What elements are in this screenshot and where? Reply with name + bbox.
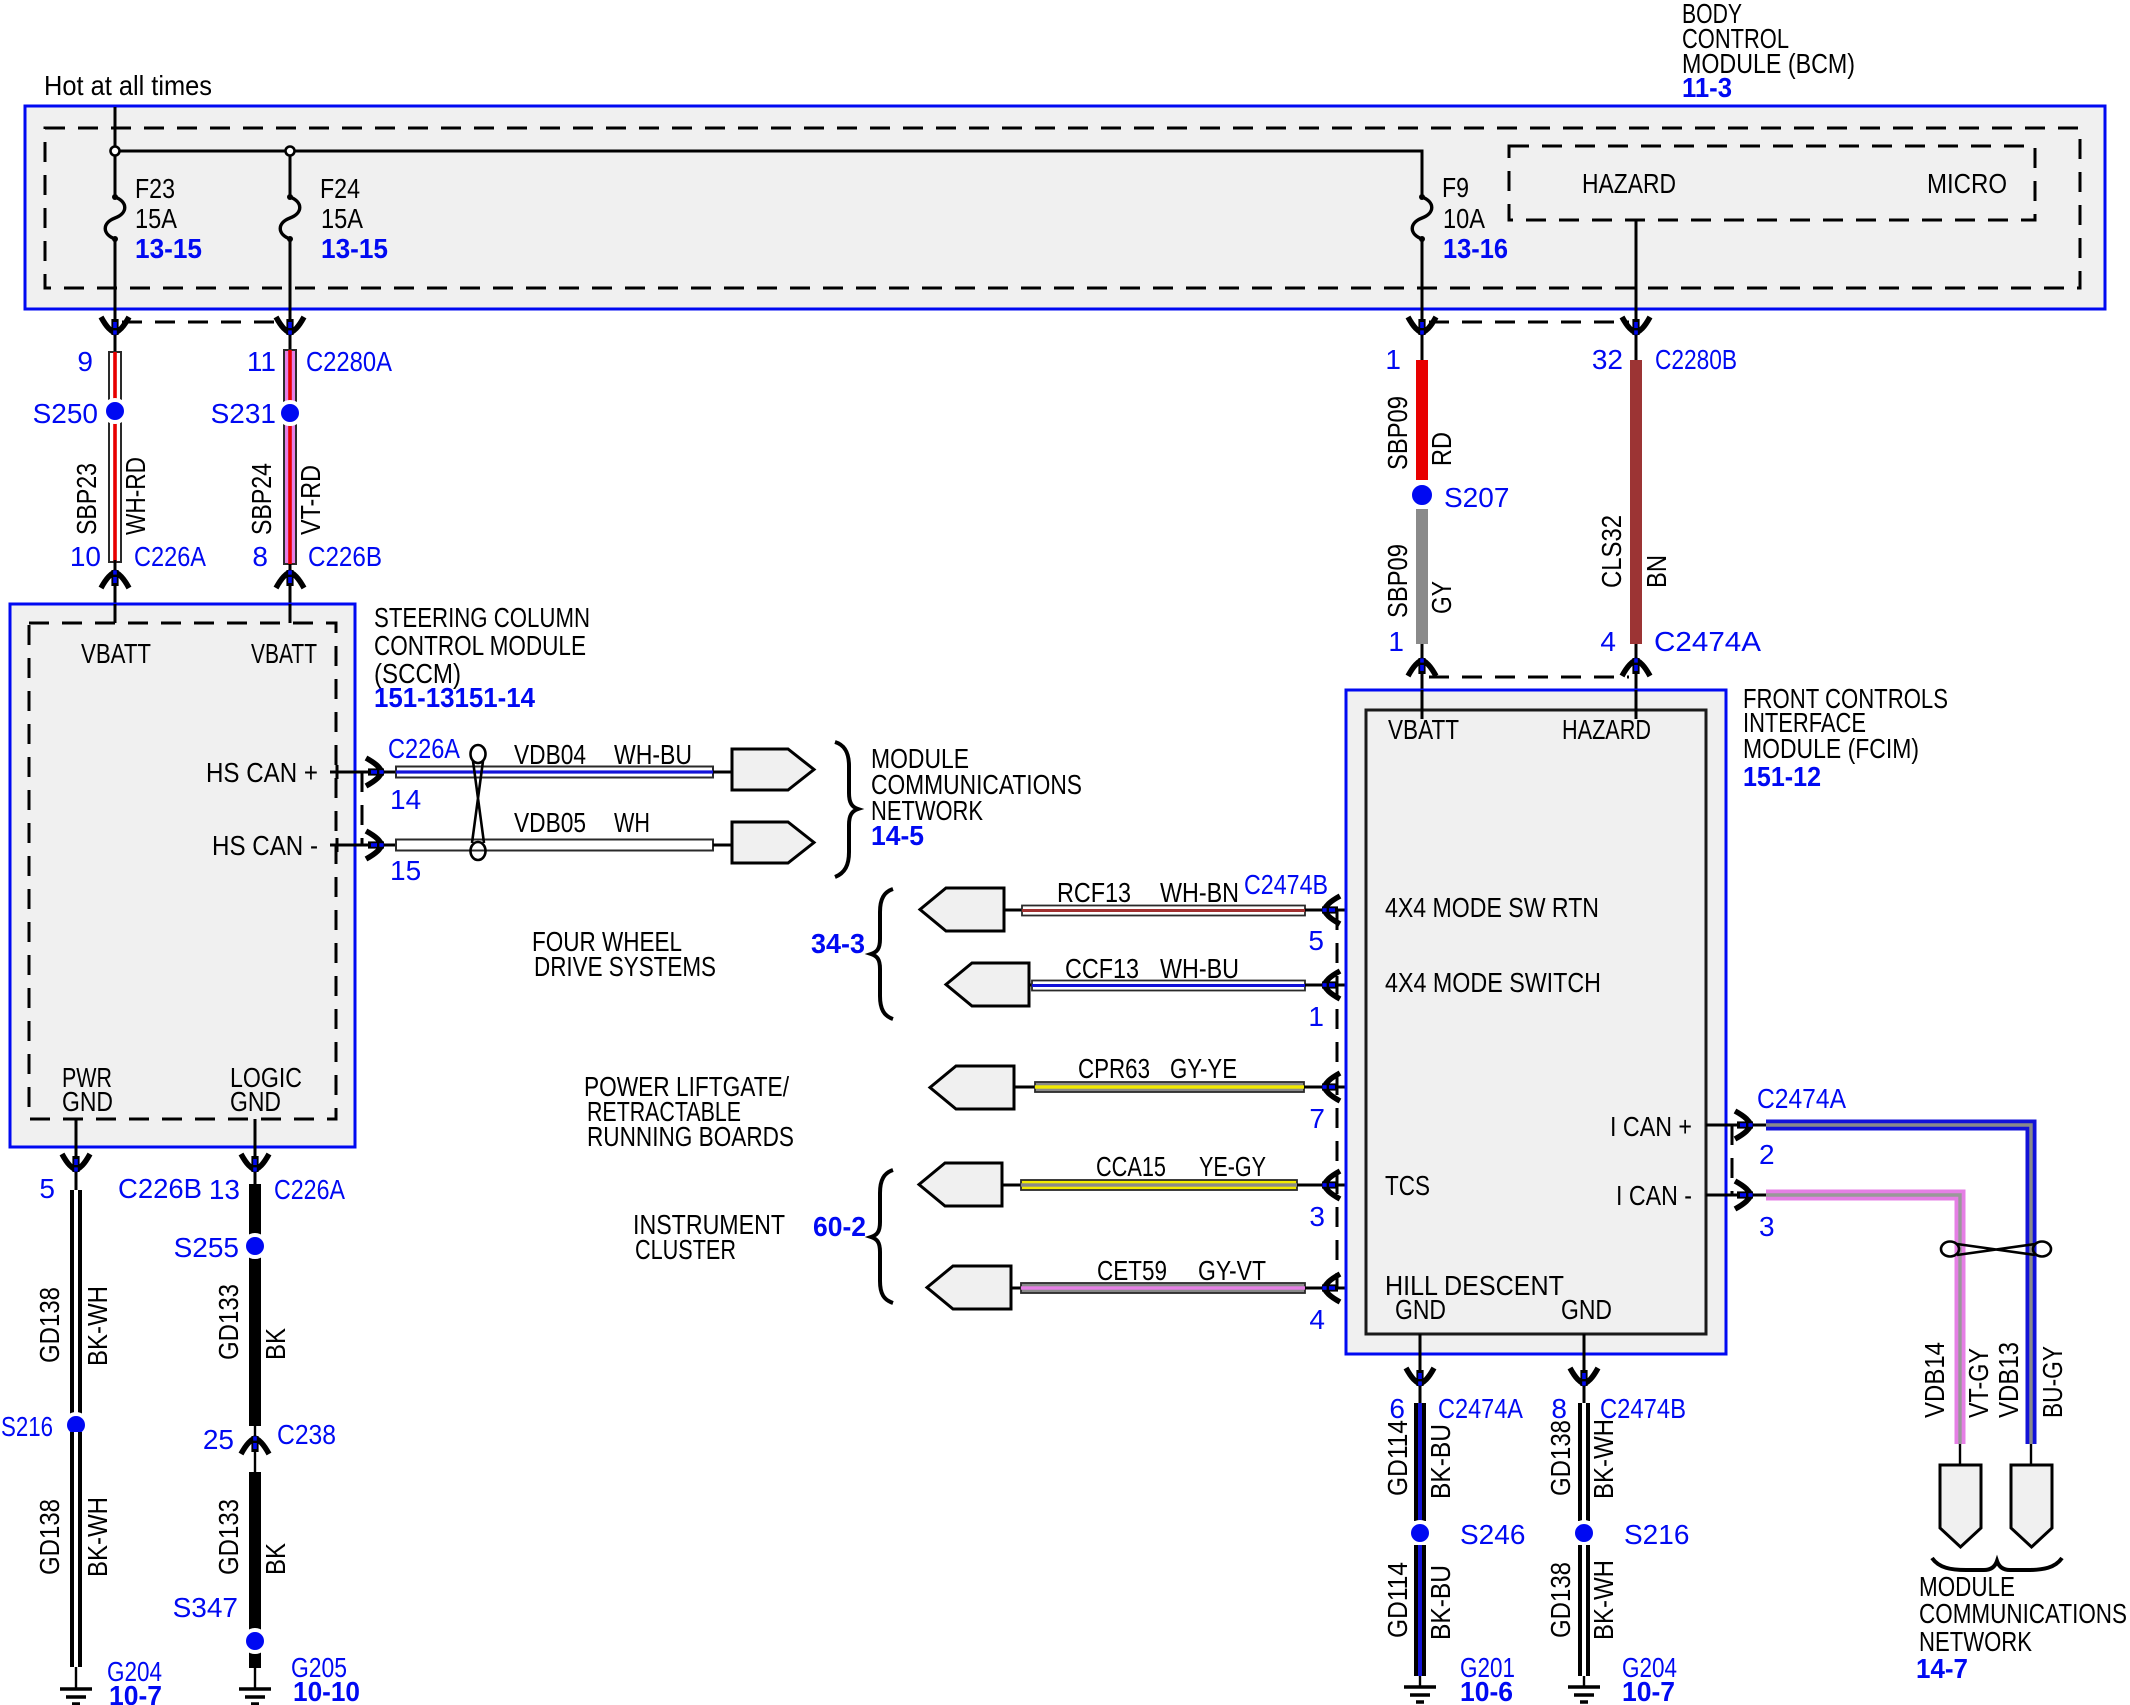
- wire SBP24 VT-RD band: [284, 335, 296, 564]
- svg-text:15: 15: [390, 855, 421, 886]
- svg-text:C226B: C226B: [118, 1173, 202, 1204]
- pin 5 / connector C226B label: [39, 1173, 202, 1204]
- connector arrow right I CAN + pin 2: [1735, 1111, 1753, 1139]
- label G205 10-10: [291, 1652, 360, 1705]
- svg-text:HS CAN -: HS CAN -: [212, 830, 318, 861]
- svg-text:1: 1: [1388, 626, 1404, 657]
- svg-text:COMMUNICATIONS: COMMUNICATIONS: [1919, 1598, 2127, 1629]
- connector pin arrow down at F9 out: [1408, 317, 1436, 335]
- ground G204 (left): [60, 1667, 92, 1704]
- svg-text:SBP09: SBP09: [1382, 544, 1413, 618]
- pin 8 / connector C226B label: [252, 541, 382, 572]
- connector C226A dashed link: [361, 772, 364, 845]
- svg-text:11-3: 11-3: [1682, 72, 1732, 103]
- svg-text:25: 25: [203, 1424, 234, 1455]
- wire F9 to connector: [1421, 239, 1424, 360]
- svg-text:CONTROL MODULE: CONTROL MODULE: [374, 630, 586, 661]
- label FOUR WHEEL DRIVE SYSTEMS: [532, 926, 716, 982]
- svg-text:HAZARD: HAZARD: [1562, 714, 1651, 745]
- wire into SCCM VBATT 1: [114, 560, 117, 604]
- svg-text:F9: F9: [1442, 172, 1469, 203]
- svg-text:BK: BK: [260, 1543, 291, 1575]
- svg-text:S231: S231: [211, 398, 276, 429]
- off-page pentagon CET59: [927, 1266, 1011, 1309]
- svg-text:VBATT: VBATT: [1388, 714, 1459, 745]
- connector arrow left pin 4: [1322, 1274, 1340, 1302]
- svg-text:SBP24: SBP24: [246, 463, 277, 535]
- svg-text:13-15: 13-15: [135, 233, 202, 264]
- BCM module label: BODY CONTROL MODULE (BCM) 11-3: [1682, 0, 1855, 103]
- svg-text:5: 5: [39, 1173, 55, 1204]
- svg-text:10-7: 10-7: [1622, 1676, 1675, 1705]
- brace four wheel drive systems: [871, 889, 893, 1019]
- wire GD138 BK-WH band (lower): [70, 1432, 82, 1667]
- svg-text:WH-BU: WH-BU: [614, 739, 692, 770]
- svg-text:S207: S207: [1444, 482, 1509, 513]
- label G204 10-7 (left): [107, 1656, 162, 1705]
- horizontal brace under pentagons: [1932, 1558, 2062, 1570]
- svg-text:TCS: TCS: [1385, 1170, 1430, 1201]
- svg-text:3: 3: [1309, 1201, 1325, 1232]
- svg-text:4X4 MODE SW RTN: 4X4 MODE SW RTN: [1385, 892, 1599, 923]
- svg-text:DRIVE SYSTEMS: DRIVE SYSTEMS: [534, 951, 716, 982]
- label POWER LIFTGATE / RETRACTABLE RUNNING BOARDS: [584, 1071, 794, 1152]
- pin 13 / connector C226A label: [209, 1174, 345, 1205]
- svg-text:14-5: 14-5: [871, 820, 924, 851]
- SCCM module box: [10, 604, 355, 1147]
- svg-text:HAZARD: HAZARD: [1582, 168, 1676, 199]
- svg-text:2: 2: [1759, 1139, 1775, 1170]
- wire SBP23 WH-RD band: [109, 335, 121, 562]
- svg-text:10-6: 10-6: [1460, 1676, 1513, 1705]
- svg-text:6: 6: [1389, 1393, 1405, 1424]
- label CCA15 YE-GY: [1096, 1151, 1266, 1182]
- svg-text:F24: F24: [320, 173, 360, 204]
- wire SBP09 RD band: [1416, 360, 1428, 480]
- splice S246: [1409, 1522, 1431, 1544]
- label CET59 GY-VT: [1097, 1255, 1266, 1286]
- wire SBP09 GY band: [1416, 509, 1428, 644]
- svg-text:CLS32: CLS32: [1596, 515, 1627, 588]
- svg-text:C226A: C226A: [274, 1174, 345, 1205]
- wire GD114 BK-BU band (upper): [1414, 1403, 1426, 1521]
- svg-text:VBATT: VBATT: [251, 638, 317, 669]
- splice S347: [244, 1630, 266, 1652]
- svg-text:CET59: CET59: [1097, 1255, 1167, 1286]
- splice S255: [244, 1235, 266, 1257]
- svg-text:WH: WH: [614, 807, 650, 838]
- svg-text:VDB14: VDB14: [1919, 1342, 1950, 1418]
- twisted pair symbol (I CAN): [1941, 1242, 2051, 1257]
- svg-text:S255: S255: [174, 1232, 239, 1263]
- pin 10 / connector C226A label: [70, 541, 206, 572]
- svg-text:GND: GND: [1395, 1294, 1446, 1325]
- wire CLS32 BN band: [1630, 360, 1642, 644]
- svg-text:GY: GY: [1426, 581, 1457, 614]
- label CPR63 GY-YE: [1078, 1053, 1237, 1084]
- fuse panel box (BCM): [25, 106, 2105, 309]
- wire RCF13 WH-BN band: [1004, 906, 1366, 916]
- svg-text:HS CAN +: HS CAN +: [206, 757, 318, 788]
- pin 8 / connector C2474B label: [1551, 1393, 1686, 1424]
- off-page connector pentagon VDB05: [732, 822, 814, 863]
- svg-text:SBP09: SBP09: [1382, 396, 1413, 470]
- brace instrument cluster: [871, 1170, 893, 1303]
- svg-text:I CAN -: I CAN -: [1616, 1180, 1692, 1211]
- svg-text:S347: S347: [173, 1592, 238, 1623]
- off-page pentagon CPR63: [930, 1066, 1014, 1109]
- junction node at F24 tap: [286, 147, 295, 156]
- wire link at C238: [254, 1426, 256, 1472]
- wire VDB04 WH-BU band: [396, 767, 732, 778]
- svg-text:8: 8: [1551, 1393, 1567, 1424]
- svg-text:WH-RD: WH-RD: [120, 457, 151, 535]
- connector pin arrow down at F23 out: [101, 317, 129, 335]
- svg-text:S216: S216: [1624, 1519, 1689, 1550]
- connector arrow left pin 7: [1322, 1073, 1340, 1101]
- FCIM module label: [1743, 683, 1948, 792]
- svg-text:GD138: GD138: [1545, 1420, 1576, 1496]
- HAZARD / MICRO dashed box: [1509, 146, 2035, 220]
- FCIM inner border: [1366, 710, 1706, 1334]
- connector arrow left pin 5: [1322, 896, 1340, 924]
- fuse F9 value labels: [1442, 172, 1508, 264]
- connector arrow up FCIM pin4: [1622, 658, 1650, 676]
- svg-text:34-3: 34-3: [811, 928, 865, 959]
- I CAN - wire stub: [1706, 1194, 1766, 1197]
- svg-text:VT-GY: VT-GY: [1963, 1348, 1994, 1418]
- pin 6 / connector C2474A label: [1389, 1393, 1523, 1424]
- svg-text:MODULE (FCIM): MODULE (FCIM): [1743, 733, 1919, 764]
- connector C2280B dashed span: [1429, 321, 1629, 324]
- connector arrow down PWR GND: [62, 1154, 90, 1172]
- svg-text:VBATT: VBATT: [81, 638, 151, 669]
- svg-text:11: 11: [247, 346, 276, 377]
- connector C2474B dashed link: [1336, 910, 1339, 1288]
- FCIM HAZARD pin stub: [1635, 690, 1638, 719]
- splice S216 (right): [1573, 1522, 1595, 1544]
- off-page connector pentagon VDB04: [732, 749, 814, 790]
- svg-text:32: 32: [1592, 344, 1623, 375]
- fuse F24: [280, 194, 300, 242]
- off-page pentagon RCF13: [920, 888, 1004, 931]
- svg-text:WH-BN: WH-BN: [1160, 877, 1239, 908]
- wire GD133 BK band (upper): [249, 1184, 261, 1426]
- connector arrow left pin 1: [1322, 971, 1340, 999]
- wire VDB05 WH band: [396, 840, 732, 851]
- connector arrow right HS CAN - pin 15: [366, 831, 384, 859]
- svg-text:10: 10: [70, 541, 101, 572]
- svg-text:GND: GND: [62, 1086, 113, 1117]
- fuse F23 value labels: [135, 173, 202, 264]
- svg-text:BK-BU: BK-BU: [1425, 1565, 1456, 1640]
- svg-text:15A: 15A: [321, 203, 363, 234]
- wire into FCIM VBATT: [1421, 644, 1424, 719]
- svg-text:C2474B: C2474B: [1244, 869, 1328, 900]
- svg-text:BK-WH: BK-WH: [1588, 1419, 1619, 1499]
- label VDB05 WH: [514, 807, 650, 838]
- fuse F9: [1412, 194, 1432, 242]
- fuse F23: [105, 194, 125, 242]
- VBATT pin stub 2: [289, 604, 292, 623]
- off-page pentagon VDB13: [2011, 1465, 2052, 1547]
- svg-text:RD: RD: [1426, 432, 1457, 466]
- wire VDB13 BU-GY band: [1766, 1125, 2031, 1444]
- wire into SCCM VBATT 2: [289, 564, 292, 604]
- svg-text:10A: 10A: [1443, 203, 1485, 234]
- svg-text:14: 14: [390, 784, 421, 815]
- twisted pair symbol: [471, 745, 486, 860]
- svg-text:STEERING COLUMN: STEERING COLUMN: [374, 602, 590, 633]
- wire GD133 BK band (lower): [249, 1472, 261, 1668]
- pin 32 / connector C2280B label: [1592, 344, 1737, 375]
- connector arrow up into SCCM pin10: [101, 570, 129, 588]
- svg-text:VDB05: VDB05: [514, 807, 586, 838]
- svg-text:4: 4: [1600, 626, 1616, 657]
- svg-text:GND: GND: [1561, 1294, 1612, 1325]
- HS CAN - wire stub: [330, 838, 396, 852]
- junction node at F23 tap: [111, 147, 120, 156]
- svg-text:BN: BN: [1641, 555, 1672, 588]
- svg-text:1: 1: [1308, 1001, 1324, 1032]
- svg-text:C2474A: C2474A: [1438, 1393, 1523, 1424]
- LOGIC GND wire out: [254, 1119, 257, 1184]
- connector arrow up into SCCM pin8: [276, 570, 304, 588]
- connector C2474A dashed span: [1429, 676, 1629, 679]
- label CCF13 WH-BU: [1065, 953, 1239, 984]
- svg-text:GND: GND: [230, 1086, 281, 1117]
- svg-text:GD138: GD138: [34, 1499, 65, 1575]
- svg-text:151-12: 151-12: [1743, 761, 1821, 792]
- wire into FCIM HAZARD: [1635, 644, 1638, 719]
- brace right of pentagons: [835, 742, 858, 877]
- ground G201: [1404, 1676, 1436, 1702]
- splice S216 (left): [65, 1414, 87, 1436]
- svg-text:GD133: GD133: [213, 1499, 244, 1575]
- FCIM GND wire out left: [1419, 1334, 1422, 1403]
- wire HAZARD output: [1635, 220, 1638, 360]
- connector arrow up FCIM pin1: [1408, 658, 1436, 676]
- svg-text:GD138: GD138: [34, 1287, 65, 1363]
- wire GD138 BK-WH band (FCIM upper): [1578, 1403, 1590, 1521]
- svg-text:8: 8: [252, 541, 268, 572]
- wire GD114 BK-BU band (lower): [1414, 1545, 1426, 1676]
- svg-text:S216: S216: [1, 1411, 53, 1442]
- FCIM GND wire out right: [1583, 1334, 1586, 1403]
- off-page pentagon CCA15: [919, 1163, 1002, 1206]
- label RCF13 WH-BN: [1057, 877, 1239, 908]
- svg-text:7: 7: [1309, 1103, 1325, 1134]
- connector pin arrow down at F24 out: [276, 317, 304, 335]
- bus wire (hot at all times): [115, 107, 1422, 196]
- svg-text:BK-BU: BK-BU: [1425, 1424, 1456, 1499]
- wire GD138 BK-WH band (upper): [70, 1190, 82, 1425]
- svg-text:BK: BK: [260, 1328, 291, 1360]
- pin 25 / connector C238 label: [203, 1419, 336, 1455]
- HS CAN + wire stub: [330, 765, 396, 779]
- svg-text:C226A: C226A: [388, 733, 460, 764]
- svg-text:GD133: GD133: [213, 1284, 244, 1360]
- connector pin arrow down at HAZARD out: [1622, 317, 1650, 335]
- off-page pentagon VDB14: [1940, 1465, 1981, 1547]
- svg-text:3: 3: [1759, 1211, 1775, 1242]
- svg-text:RCF13: RCF13: [1057, 877, 1131, 908]
- module communications network label: [871, 743, 1082, 851]
- svg-text:F23: F23: [135, 173, 175, 204]
- svg-text:60-2: 60-2: [813, 1211, 866, 1242]
- svg-text:I CAN +: I CAN +: [1610, 1111, 1692, 1142]
- wire CPR63 GY-YE band: [1014, 1082, 1366, 1092]
- svg-text:S250: S250: [33, 398, 98, 429]
- label G204 10-7 (right): [1622, 1652, 1677, 1705]
- splice S207: [1410, 483, 1434, 507]
- svg-text:GY-YE: GY-YE: [1170, 1053, 1237, 1084]
- svg-text:S246: S246: [1460, 1519, 1525, 1550]
- svg-text:BK-WH: BK-WH: [82, 1286, 113, 1366]
- svg-text:15A: 15A: [135, 203, 177, 234]
- wire GD138 BK-WH band (FCIM lower): [1578, 1545, 1590, 1676]
- wire stub to pentagon VDB14: [1959, 1444, 1961, 1465]
- svg-text:13: 13: [209, 1174, 240, 1205]
- svg-text:14-7: 14-7: [1916, 1653, 1968, 1684]
- wire F24 to connector: [289, 239, 292, 352]
- svg-text:10-7: 10-7: [109, 1680, 162, 1705]
- svg-text:RUNNING BOARDS: RUNNING BOARDS: [587, 1121, 794, 1152]
- wire F23 to connector: [114, 239, 117, 352]
- svg-text:BU-GY: BU-GY: [2037, 1346, 2068, 1418]
- svg-text:C2474A: C2474A: [1654, 626, 1761, 657]
- splice S231: [279, 402, 301, 424]
- pin 4 / connector C2474A label: [1600, 626, 1761, 657]
- connector C2474A dashed link (right): [1731, 1125, 1734, 1195]
- ground G205: [239, 1668, 271, 1704]
- svg-text:GD114: GD114: [1382, 1562, 1413, 1638]
- svg-text:C2280B: C2280B: [1655, 344, 1737, 375]
- label PWR GND: [62, 1062, 113, 1117]
- svg-text:1: 1: [1385, 344, 1401, 375]
- svg-text:YE-GY: YE-GY: [1199, 1151, 1266, 1182]
- connector arrow down FCIM GND pin 8: [1570, 1368, 1598, 1386]
- svg-text:C238: C238: [277, 1419, 336, 1450]
- module communications network label (bottom): [1916, 1571, 2127, 1684]
- wire stub to pentagon VDB13: [2030, 1444, 2032, 1465]
- svg-text:C2280A: C2280A: [306, 346, 392, 377]
- label LOGIC GND: [230, 1062, 302, 1117]
- VBATT pin stub 1: [114, 604, 117, 623]
- connector arrow up C238 pin 25: [241, 1436, 269, 1454]
- svg-text:BK-WH: BK-WH: [82, 1497, 113, 1577]
- svg-text:4: 4: [1309, 1304, 1325, 1335]
- svg-text:13-15: 13-15: [321, 233, 388, 264]
- svg-text:9: 9: [77, 346, 93, 377]
- svg-text:VDB04: VDB04: [514, 739, 586, 770]
- svg-text:SBP23: SBP23: [71, 463, 102, 535]
- SCCM module label: [374, 602, 590, 713]
- wire CCA15 YE-GY band: [1002, 1180, 1366, 1190]
- svg-text:VT-RD: VT-RD: [295, 465, 326, 535]
- label G201 10-6: [1460, 1652, 1515, 1705]
- off-page pentagon CCF13: [946, 963, 1029, 1006]
- FCIM VBATT pin stub: [1421, 690, 1424, 719]
- label INSTRUMENT CLUSTER: [633, 1209, 785, 1265]
- pin 11 / connector C2280A label: [247, 346, 392, 377]
- wire CET59 GY-VT band: [1011, 1283, 1366, 1293]
- label VDB04 WH-BU: [514, 739, 692, 770]
- connector arrow down LOGIC GND: [241, 1154, 269, 1172]
- svg-text:13-16: 13-16: [1443, 233, 1508, 264]
- FCIM module box: [1346, 690, 1726, 1354]
- svg-text:Hot at all times: Hot at all times: [44, 70, 212, 101]
- splice S250: [104, 400, 126, 422]
- svg-text:10-10: 10-10: [293, 1676, 360, 1705]
- svg-text:C226A: C226A: [134, 541, 206, 572]
- svg-text:CPR63: CPR63: [1078, 1053, 1150, 1084]
- I CAN + wire stub: [1706, 1124, 1766, 1127]
- svg-text:GY-VT: GY-VT: [1198, 1255, 1266, 1286]
- svg-text:VDB13: VDB13: [1993, 1342, 2024, 1418]
- ground G204 (right): [1568, 1676, 1600, 1702]
- svg-text:5: 5: [1308, 925, 1324, 956]
- svg-text:WH-BU: WH-BU: [1160, 953, 1239, 984]
- wire VDB14 VT-GY band: [1766, 1195, 1960, 1444]
- connector C2280A dashed span: [122, 321, 283, 324]
- svg-text:CCA15: CCA15: [1096, 1151, 1166, 1182]
- connector arrow down FCIM GND pin 6: [1406, 1368, 1434, 1386]
- fuse F24 value labels: [320, 173, 388, 264]
- svg-text:BK-WH: BK-WH: [1588, 1560, 1619, 1640]
- SCCM inner dashed border: [29, 623, 336, 1119]
- wire CCF13 WH-BU band: [1029, 981, 1366, 991]
- connector arrow right HS CAN + pin 14: [366, 758, 384, 786]
- svg-text:CLUSTER: CLUSTER: [635, 1234, 736, 1265]
- svg-text:GD114: GD114: [1382, 1420, 1413, 1496]
- PWR GND wire out: [75, 1119, 78, 1190]
- svg-text:4X4 MODE SWITCH: 4X4 MODE SWITCH: [1385, 967, 1601, 998]
- svg-text:MICRO: MICRO: [1927, 168, 2007, 199]
- connector arrow right I CAN - pin 3: [1735, 1181, 1753, 1209]
- svg-text:151-13151-14: 151-13151-14: [374, 682, 535, 713]
- svg-text:C2474A: C2474A: [1757, 1083, 1846, 1114]
- svg-text:CCF13: CCF13: [1065, 953, 1139, 984]
- svg-text:GD138: GD138: [1545, 1562, 1576, 1638]
- connector arrow left pin 3: [1322, 1171, 1340, 1199]
- fuse panel inner dashed border: [45, 128, 2080, 288]
- svg-text:C226B: C226B: [308, 541, 382, 572]
